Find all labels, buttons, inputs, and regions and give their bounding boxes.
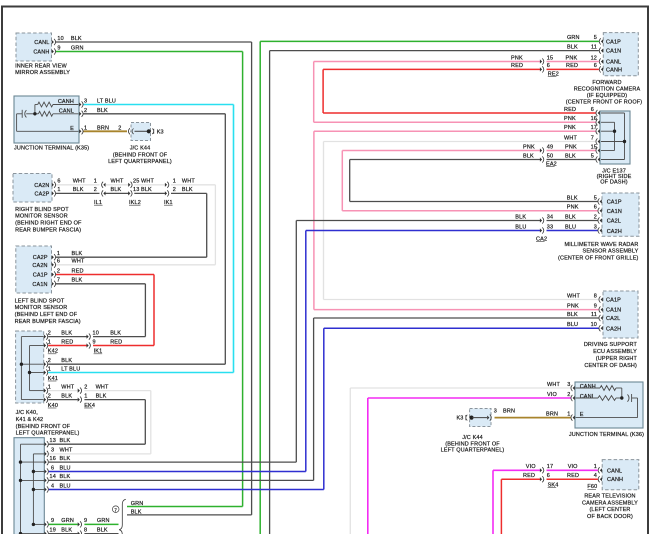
pin (45, 532, 47, 534)
inline connector IK1 (87, 335, 89, 339)
resistor in K36 CANL (598, 396, 616, 401)
svg-text:9: 9 (93, 339, 96, 345)
pin 1 (79, 129, 81, 133)
svg-text:K41 & K42: K41 & K42 (16, 417, 44, 423)
svg-text:BLK: BLK (182, 187, 193, 193)
svg-text:BLK: BLK (60, 474, 71, 480)
svg-text:3: 3 (594, 224, 597, 230)
svg-text:CA1P: CA1P (606, 39, 621, 45)
svg-text:8: 8 (594, 293, 597, 299)
pin (598, 148, 600, 152)
svg-text:(UPPER RIGHT: (UPPER RIGHT (596, 356, 638, 362)
svg-text:CA1P: CA1P (607, 200, 622, 206)
svg-text:3: 3 (84, 99, 87, 105)
svg-text:CA1P: CA1P (606, 298, 621, 304)
pin 4 (600, 477, 602, 481)
svg-text:BLK: BLK (60, 438, 71, 444)
svg-text:BLK: BLK (565, 153, 576, 159)
svg-text:9: 9 (57, 46, 60, 52)
svg-text:CANL: CANL (34, 40, 49, 46)
node (19, 460, 22, 463)
svg-text:VIO: VIO (568, 464, 578, 470)
svg-text:4: 4 (51, 483, 54, 489)
wire PNK driving CA1N (314, 309, 599, 311)
wire BLK K42 pin2 (48, 336, 87, 338)
wire BLK radar CA1P (350, 201, 598, 203)
wire RED left sensor CA1P (56, 274, 154, 276)
pin 3 (600, 228, 602, 232)
svg-text:(BEHIND FRONT OF: (BEHIND FRONT OF (113, 152, 168, 158)
svg-text:WHT: WHT (547, 382, 560, 388)
svg-text:11: 11 (591, 44, 597, 50)
pin 7 (52, 282, 54, 286)
svg-text:BLK: BLK (523, 153, 534, 159)
connector: right blind spot monitor sensor (13, 174, 52, 203)
svg-text:(LEFT CENTER: (LEFT CENTER (589, 507, 630, 513)
svg-text:CENTER OF DASH): CENTER OF DASH) (584, 363, 637, 369)
svg-text:WHT: WHT (111, 179, 124, 185)
pin 2 (600, 218, 602, 222)
pin 1 (44, 343, 46, 347)
wire (206, 193, 208, 257)
wire RED camera CANH (323, 68, 540, 70)
pin 1 (52, 255, 54, 259)
wire internal (17, 113, 23, 115)
svg-text:25: 25 (133, 179, 139, 185)
svg-text:2: 2 (57, 268, 60, 274)
svg-text:1: 1 (57, 251, 60, 257)
svg-text:34: 34 (547, 214, 553, 220)
svg-text:CA2P: CA2P (33, 255, 48, 261)
pin 5 (600, 199, 602, 203)
wire (242, 52, 244, 507)
svg-text:REAR BUMPER FASCIA): REAR BUMPER FASCIA) (15, 319, 81, 325)
svg-text:2: 2 (173, 187, 176, 193)
svg-text:PNK: PNK (565, 144, 577, 150)
wire PNK E137 17 (314, 130, 596, 132)
wire BLU driving CA2H (324, 327, 599, 329)
svg-text:CA2H: CA2H (607, 229, 622, 235)
node (20, 363, 23, 366)
svg-text:BLK: BLK (73, 187, 84, 193)
svg-text:BLK: BLK (111, 187, 122, 193)
pin 10 (601, 326, 603, 330)
svg-text:VIO: VIO (547, 392, 557, 398)
wire BLK driving CA2L (314, 317, 599, 319)
svg-text:BLK: BLK (61, 527, 72, 533)
pin 6 (600, 209, 602, 213)
svg-text:BLK: BLK (567, 312, 578, 318)
svg-text:3: 3 (567, 382, 570, 388)
svg-text:19: 19 (50, 527, 56, 533)
svg-text:10: 10 (93, 330, 99, 336)
connector: left blind spot monitor sensor (16, 246, 52, 293)
wire LT BLU K35 CANH (84, 104, 234, 106)
svg-text:REAR BUMPER FASCIA): REAR BUMPER FASCIA) (15, 227, 81, 233)
svg-text:CANL: CANL (606, 60, 621, 66)
resistor in K35 CANL (38, 111, 53, 116)
svg-text:BLU: BLU (60, 483, 71, 489)
wire GRN camera CA1P (260, 40, 599, 42)
svg-text:CA2N: CA2N (34, 183, 49, 189)
svg-text:BLK: BLK (61, 393, 72, 399)
svg-text:LEFT BLIND SPOT: LEFT BLIND SPOT (15, 298, 65, 304)
svg-text:CA1N: CA1N (606, 49, 621, 55)
pin 1 (44, 389, 46, 393)
node (19, 532, 22, 534)
wire PNK E137 15 (342, 150, 540, 152)
svg-text:BLK: BLK (97, 527, 108, 533)
pin 12 (601, 59, 603, 63)
svg-text:CA2L: CA2L (606, 316, 620, 322)
svg-text:CA1N: CA1N (32, 282, 47, 288)
svg-text:LEFT QUARTERPANEL): LEFT QUARTERPANEL) (108, 159, 172, 165)
svg-text:1: 1 (94, 179, 97, 185)
wire (367, 398, 369, 534)
inline connector IK1 (87, 343, 89, 347)
node (28, 371, 31, 374)
wire (153, 275, 155, 346)
svg-text:7: 7 (57, 278, 60, 284)
inline connector (78, 522, 80, 526)
inline connector RE2 (540, 59, 542, 63)
svg-text:ECU ASSEMBLY: ECU ASSEMBLY (593, 349, 637, 355)
svg-text:SENSOR ASSEMBLY: SENSOR ASSEMBLY (583, 249, 639, 255)
svg-text:49: 49 (547, 144, 553, 150)
svg-text:CA2N: CA2N (32, 263, 47, 269)
wire internal bus 1 (20, 444, 22, 533)
svg-text:CA2P: CA2P (35, 191, 50, 197)
svg-text:GRN: GRN (71, 46, 84, 52)
svg-text:6: 6 (591, 107, 594, 113)
wire LT BLU K41 pin1 (48, 372, 233, 374)
svg-text:15: 15 (591, 144, 597, 150)
pin 3 (573, 386, 575, 390)
svg-text:WHT: WHT (182, 179, 195, 185)
pin (45, 452, 47, 456)
inline connector EK4 (78, 398, 80, 402)
svg-text:RECOGNITION CAMERA: RECOGNITION CAMERA (574, 86, 641, 92)
svg-text:2: 2 (94, 187, 97, 193)
svg-text:BLK: BLK (71, 36, 82, 42)
svg-text:FORWARD: FORWARD (592, 80, 621, 86)
wire (150, 391, 152, 454)
svg-text:(CENTER FRONT OF ROOF): (CENTER FRONT OF ROOF) (566, 100, 643, 106)
svg-text:13: 13 (50, 438, 56, 444)
svg-text:CANH: CANH (580, 384, 596, 390)
svg-text:4: 4 (594, 473, 597, 479)
wire BLK pin19 (49, 533, 78, 534)
pin 10 (52, 40, 54, 44)
wire (259, 41, 261, 534)
svg-text:1: 1 (48, 366, 51, 372)
wire (313, 131, 315, 309)
pin (45, 487, 47, 491)
wire VIO K36 CANL (368, 397, 571, 399)
wire (214, 185, 216, 265)
pin 2 (79, 112, 81, 116)
inline connector IL1 row2 (103, 191, 105, 195)
pin 2 (44, 362, 46, 366)
svg-text:2: 2 (48, 358, 51, 364)
connector: driving support ECU (603, 291, 638, 338)
node K3 (147, 129, 151, 133)
pin (598, 111, 600, 115)
node K3 (469, 416, 473, 420)
wire (322, 69, 324, 113)
svg-text:CA1N: CA1N (607, 209, 622, 215)
page reference 7 (112, 506, 119, 513)
svg-text:9: 9 (51, 518, 54, 524)
svg-text:6: 6 (547, 473, 550, 479)
pin (45, 460, 47, 464)
svg-text:PNK: PNK (564, 116, 576, 122)
svg-text:J/C K44: J/C K44 (462, 435, 483, 441)
wire BLK radar CA2L (296, 220, 540, 222)
svg-text:10: 10 (57, 36, 63, 42)
svg-text:7: 7 (591, 135, 594, 141)
svg-text:9: 9 (84, 518, 87, 524)
wire WHT left sensor CA2N (56, 264, 215, 266)
wire (323, 328, 325, 489)
wire (295, 221, 297, 463)
svg-text:PNK: PNK (564, 125, 576, 131)
svg-text:1: 1 (173, 179, 176, 185)
svg-text:RED: RED (566, 63, 578, 69)
svg-text:WHT: WHT (60, 448, 73, 454)
svg-text:6: 6 (57, 179, 60, 185)
svg-text:J/C K40,: J/C K40, (16, 410, 39, 416)
wire internal bus 1 (20, 337, 22, 400)
inline connector EK4 (78, 389, 80, 393)
junction connector J/C E137 (600, 111, 630, 164)
wire BLK K41 pin2 (48, 363, 225, 365)
svg-text:13: 13 (133, 187, 139, 193)
inline connector CA2 (540, 218, 542, 222)
pin 2 (44, 398, 46, 402)
wire BLK K40 pin2 (48, 399, 78, 401)
svg-text:GRN: GRN (567, 35, 580, 41)
svg-text:DRIVING SUPPORT: DRIVING SUPPORT (584, 342, 638, 348)
svg-text:2: 2 (84, 108, 87, 114)
svg-text:BLU: BLU (567, 322, 578, 328)
svg-text:2: 2 (48, 393, 51, 399)
svg-text:WHT: WHT (96, 384, 109, 390)
svg-text:PNK: PNK (523, 144, 535, 150)
wire WHT right sensor row (56, 184, 100, 186)
svg-text:17: 17 (547, 464, 553, 470)
pin (45, 469, 47, 473)
svg-text:PNK: PNK (567, 205, 579, 211)
svg-text:LT BLU: LT BLU (61, 366, 80, 372)
svg-text:BLK: BLK (60, 456, 71, 462)
wire (251, 42, 253, 515)
wire WHT driving CA1P (324, 299, 599, 301)
svg-text:CANL: CANL (607, 468, 622, 474)
wire BLK mirror pin10 (56, 41, 252, 43)
svg-text:BLK: BLK (72, 278, 83, 284)
pin (45, 442, 47, 446)
svg-text:RIGHT BLIND SPOT: RIGHT BLIND SPOT (15, 207, 69, 213)
svg-text:BLK: BLK (110, 330, 121, 336)
pin 2 (44, 335, 46, 339)
wire WHT pin3 (49, 453, 151, 455)
wire PNK camera CANL (314, 61, 540, 63)
svg-text:RED: RED (567, 473, 579, 479)
svg-text:6: 6 (57, 259, 60, 265)
svg-text:1: 1 (84, 393, 87, 399)
capacitor in K36 (627, 394, 629, 401)
junction terminal (K35) (14, 96, 79, 143)
svg-text:RED: RED (564, 107, 576, 113)
svg-text:3: 3 (494, 409, 497, 415)
svg-text:6: 6 (594, 63, 597, 69)
inline connector RE2 (540, 67, 542, 71)
svg-text:BLK: BLK (61, 358, 72, 364)
brace (119, 499, 126, 534)
svg-text:OF BACK DOOR): OF BACK DOOR) (587, 514, 633, 520)
svg-text:5: 5 (591, 153, 594, 159)
pin (45, 522, 47, 526)
svg-text:CANL: CANL (580, 394, 595, 400)
svg-text:BLU: BLU (515, 224, 526, 230)
svg-text:CA1N: CA1N (606, 308, 621, 314)
wire (349, 388, 351, 534)
svg-text:RED: RED (523, 473, 535, 479)
svg-text:VIO: VIO (526, 464, 536, 470)
wire BLU pin4 (49, 489, 324, 491)
svg-text:16: 16 (591, 116, 597, 122)
wire BRN K35 E (84, 130, 128, 132)
wire BLK page7 (127, 514, 252, 516)
svg-text:6: 6 (51, 465, 54, 471)
node (32, 488, 35, 491)
inline connector IK1 row1 (165, 183, 167, 187)
svg-text:CA2H: CA2H (606, 326, 621, 332)
node (19, 479, 22, 482)
svg-text:BLK: BLK (72, 251, 83, 257)
pin 1 (573, 416, 575, 420)
svg-text:CA2L: CA2L (607, 219, 621, 225)
node (32, 470, 35, 473)
wire internal bus 2 (29, 346, 31, 391)
wire PNK radar CA1N (342, 210, 597, 212)
wire (144, 400, 146, 445)
svg-text:WHT: WHT (72, 259, 85, 265)
svg-text:RED: RED (61, 339, 73, 345)
wire (323, 142, 325, 300)
pin (598, 157, 600, 161)
wire (349, 160, 351, 202)
svg-text:(CENTER OF FRONT GRILLE): (CENTER OF FRONT GRILLE) (558, 255, 639, 261)
wire (341, 151, 343, 211)
svg-text:BLK: BLK (96, 393, 107, 399)
svg-text:GRN: GRN (61, 518, 74, 524)
pin 9 (601, 308, 603, 312)
pin 9 (52, 49, 54, 53)
node junction (620, 396, 623, 399)
svg-text:E: E (580, 412, 584, 418)
svg-text:10: 10 (591, 322, 597, 328)
svg-text:PNK: PNK (566, 55, 578, 61)
svg-text:2: 2 (567, 392, 570, 398)
connector: inner rear view mirror assembly (16, 33, 52, 61)
wire RED K42 pin1 (48, 345, 87, 347)
svg-text:15: 15 (547, 55, 553, 61)
svg-text:LT BLU: LT BLU (97, 99, 116, 105)
svg-text:(BEHIND FRONT OF: (BEHIND FRONT OF (16, 424, 71, 430)
svg-text:50: 50 (547, 153, 553, 159)
inline connector SK4 (540, 468, 542, 472)
wire (305, 231, 307, 472)
pin (45, 478, 47, 482)
inline connector EA2 (540, 157, 542, 161)
wire VIO rear TV CANL (493, 469, 540, 471)
wire (313, 62, 315, 123)
pin (598, 129, 600, 133)
junction connector J/C K40 K41 K42 (16, 331, 44, 403)
pin 11 (601, 316, 603, 320)
svg-text:(IF EQUIPPED): (IF EQUIPPED) (587, 93, 627, 99)
svg-text:MONITOR SENSOR: MONITOR SENSOR (15, 305, 68, 311)
svg-text:3: 3 (51, 448, 54, 454)
pin 2 (52, 272, 54, 276)
svg-text:9: 9 (594, 303, 597, 309)
svg-text:16: 16 (50, 456, 56, 462)
wire BLK pin16 (49, 461, 296, 463)
wire (492, 470, 494, 534)
svg-text:BLU: BLU (565, 224, 576, 230)
svg-text:1: 1 (567, 411, 570, 417)
wire (313, 318, 315, 480)
resistor in K36 CANH (600, 386, 616, 391)
wire GRN mirror pin9 (56, 51, 243, 53)
node (623, 140, 626, 143)
svg-text:PNK: PNK (511, 55, 523, 61)
svg-text:CA1P: CA1P (33, 273, 48, 279)
pin 11 (601, 49, 603, 53)
wire BRN K36 E (495, 417, 571, 419)
svg-text:INNER REAR VIEW: INNER REAR VIEW (15, 64, 67, 70)
svg-text:LEFT QUARTERPANEL): LEFT QUARTERPANEL) (441, 448, 505, 454)
wire PNK E137 16 (314, 121, 596, 123)
pin (598, 139, 600, 143)
inline connector CA2 (540, 228, 542, 232)
svg-text:12: 12 (591, 55, 597, 61)
wire WHT K40 pin1 (48, 390, 78, 392)
inline connector (78, 532, 80, 534)
wire (233, 105, 235, 373)
svg-text:BLU: BLU (60, 465, 71, 471)
svg-text:2: 2 (48, 330, 51, 336)
svg-text:1: 1 (57, 187, 60, 193)
wire BLU pin6 (49, 471, 306, 473)
pin 6 (52, 263, 54, 267)
connector: millimeter wave radar sensor (602, 193, 639, 236)
wire (144, 284, 146, 337)
svg-text:1: 1 (48, 384, 51, 390)
svg-text:(BEHIND FRONT OF: (BEHIND FRONT OF (445, 441, 500, 447)
svg-text:RED: RED (511, 63, 523, 69)
junction connector (bottom left) (14, 438, 44, 534)
svg-text:(BEHIND LEFT END OF: (BEHIND LEFT END OF (15, 312, 78, 318)
inline connector IL1 row1 (103, 183, 105, 187)
inline connector IKL2 row1 (128, 183, 130, 187)
svg-text:CAMERA ASSEMBLY: CAMERA ASSEMBLY (582, 500, 638, 506)
pin 8 (601, 297, 603, 301)
svg-text:CANH: CANH (33, 50, 49, 56)
svg-text:RED: RED (72, 268, 84, 274)
